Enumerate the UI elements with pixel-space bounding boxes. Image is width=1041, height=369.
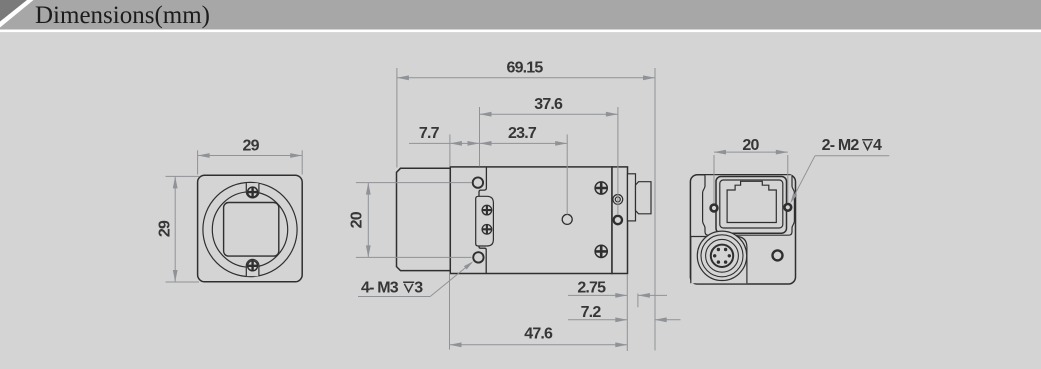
- svg-text:7.7: 7.7: [419, 125, 440, 142]
- svg-text:2- M2: 2- M2: [822, 137, 860, 154]
- svg-text:20: 20: [742, 137, 759, 154]
- svg-text:4: 4: [873, 137, 882, 154]
- svg-text:29: 29: [242, 137, 259, 154]
- svg-text:4- M3: 4- M3: [361, 279, 399, 296]
- svg-text:Dimensions(mm): Dimensions(mm): [35, 2, 210, 29]
- svg-text:29: 29: [157, 220, 174, 237]
- svg-text:47.6: 47.6: [524, 325, 553, 342]
- svg-text:23.7: 23.7: [508, 125, 537, 142]
- svg-text:69.15: 69.15: [506, 60, 543, 77]
- svg-text:3: 3: [414, 279, 423, 296]
- svg-text:2.75: 2.75: [577, 279, 606, 296]
- svg-text:37.6: 37.6: [534, 96, 563, 113]
- svg-text:7.2: 7.2: [581, 304, 602, 321]
- svg-text:20: 20: [349, 211, 366, 228]
